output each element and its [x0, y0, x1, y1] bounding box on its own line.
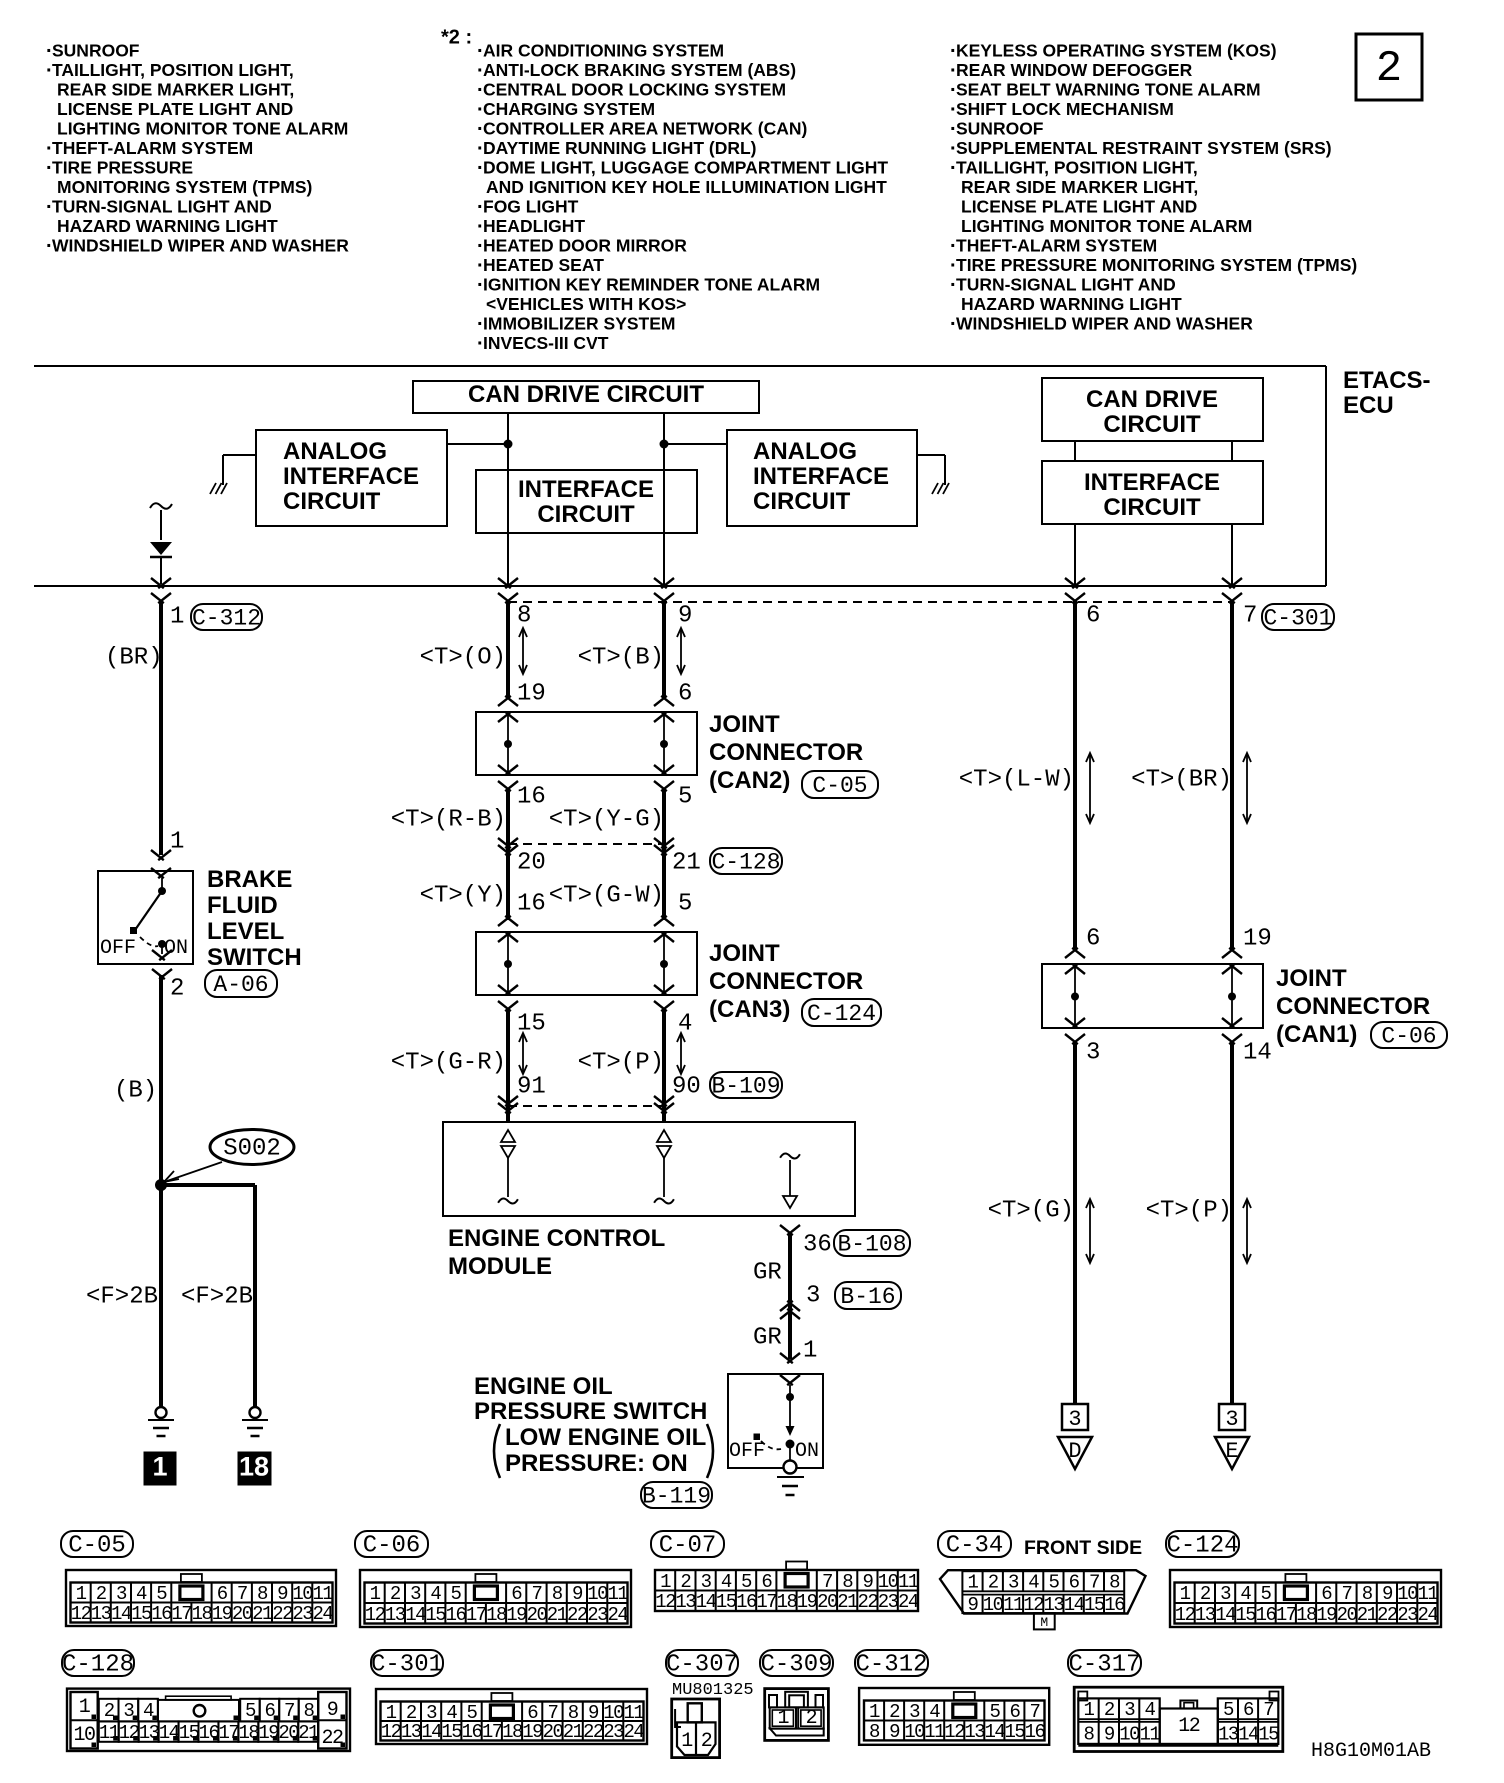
svg-text:2: 2 [701, 1730, 712, 1753]
svg-text:D: D [1068, 1439, 1081, 1464]
svg-text:4: 4 [136, 1583, 147, 1605]
svg-text:21: 21 [252, 1603, 273, 1625]
splice junction dot S002 [155, 1179, 167, 1191]
svg-text:13: 13 [1195, 1604, 1216, 1626]
svg-text:<T>(G-R): <T>(G-R) [391, 1049, 506, 1076]
svg-text:1: 1 [869, 1701, 880, 1723]
svg-text:C-317: C-317 [1068, 1652, 1140, 1679]
svg-text:10: 10 [292, 1583, 313, 1605]
svg-text:1: 1 [170, 603, 184, 630]
wire CAN-L bus to joint CAN2 [506, 601, 510, 697]
svg-text:7: 7 [1342, 1583, 1352, 1605]
svg-text:6: 6 [1086, 925, 1100, 952]
svg-text:IGNITION KEY REMINDER TONE ALA: IGNITION KEY REMINDER TONE ALARM [483, 275, 820, 295]
engine control module box [443, 1122, 855, 1216]
junction dot left [504, 440, 513, 449]
svg-text:18: 18 [502, 1721, 523, 1743]
svg-text:14: 14 [1238, 1724, 1259, 1746]
svg-text:14: 14 [405, 1604, 426, 1626]
svg-text:INTERFACE: INTERFACE [753, 463, 889, 490]
svg-text:15: 15 [441, 1721, 462, 1743]
svg-text:BRAKE: BRAKE [207, 866, 292, 893]
wire label GR lower [753, 1324, 782, 1351]
svg-text:CIRCUIT: CIRCUIT [1103, 494, 1201, 521]
svg-text:24: 24 [623, 1721, 644, 1743]
svg-text:2: 2 [806, 1707, 817, 1730]
svg-text:SUNROOF: SUNROOF [956, 119, 1044, 139]
svg-text:TURN-SIGNAL LIGHT AND: TURN-SIGNAL LIGHT AND [52, 197, 272, 217]
pin label 8 [517, 602, 531, 629]
svg-text:22: 22 [272, 1603, 293, 1625]
svg-text:9: 9 [572, 1583, 583, 1605]
svg-text:C-124: C-124 [1166, 1533, 1238, 1560]
wire link CAN drive to interface (right block) pin6 [1074, 441, 1076, 461]
wire CAN1 joint to D [1073, 1042, 1077, 1404]
svg-text:JOINT: JOINT [709, 940, 780, 967]
svg-text:12: 12 [1175, 1604, 1196, 1626]
connector C-07 label [651, 1531, 724, 1560]
svg-text:12: 12 [944, 1721, 965, 1743]
svg-text:14: 14 [159, 1722, 180, 1744]
pin label 14 joint CAN1 [1243, 1039, 1272, 1066]
junction dot right [660, 440, 669, 449]
svg-text:11: 11 [1140, 1724, 1161, 1746]
svg-text:8: 8 [1362, 1583, 1373, 1605]
wire ground branch 18 [253, 1185, 257, 1407]
svg-text:22: 22 [583, 1721, 604, 1743]
svg-text:22: 22 [857, 1591, 878, 1613]
svg-text:6: 6 [1321, 1583, 1332, 1605]
svg-text:14: 14 [111, 1603, 132, 1625]
connector C-307 pinout [672, 1699, 720, 1758]
svg-text:E: E [1225, 1439, 1238, 1464]
svg-text:21: 21 [298, 1722, 319, 1744]
svg-text:7: 7 [237, 1583, 247, 1605]
svg-text:1: 1 [660, 1571, 671, 1593]
svg-text:7: 7 [1243, 602, 1257, 629]
svg-text:ANALOG: ANALOG [753, 438, 857, 465]
svg-text:13: 13 [91, 1603, 112, 1625]
svg-text:<T>(G-W): <T>(G-W) [549, 882, 664, 909]
connector crossing B-109 left [498, 1096, 518, 1113]
twisted arrow right3 [1086, 1199, 1094, 1263]
svg-text:16: 16 [1025, 1721, 1046, 1743]
svg-text:16: 16 [446, 1604, 467, 1626]
connector C-307 part number [672, 1681, 754, 1700]
svg-text:<F>2B: <F>2B [181, 1283, 253, 1310]
svg-text:23: 23 [587, 1604, 608, 1626]
svg-text:18: 18 [192, 1603, 213, 1625]
wire label T O [420, 644, 506, 671]
ground stub left analog interface [210, 455, 256, 494]
svg-text:36: 36 [803, 1231, 832, 1258]
svg-text:4: 4 [143, 1700, 154, 1722]
bus line (connector row) [34, 585, 1326, 587]
svg-text:7: 7 [822, 1571, 832, 1593]
wire CAN1 pin7 bus to joint [1230, 601, 1234, 950]
svg-text:IMMOBILIZER SYSTEM: IMMOBILIZER SYSTEM [483, 314, 676, 334]
joint connector CAN3 label [709, 940, 881, 1027]
connector C-06 pinout [360, 1570, 631, 1627]
svg-text:12: 12 [655, 1591, 676, 1613]
svg-text:10: 10 [904, 1721, 925, 1743]
svg-text:CONNECTOR: CONNECTOR [1276, 993, 1430, 1020]
analog interface circuit box (right) [727, 430, 917, 526]
svg-text:S002: S002 [223, 1135, 281, 1162]
svg-text:21: 21 [547, 1604, 568, 1626]
svg-text:5: 5 [678, 783, 692, 810]
svg-text:15: 15 [1084, 1594, 1105, 1616]
joint connector (CAN1) C-06 box [1042, 948, 1263, 1044]
dashed connector line C-312/C-301 [508, 601, 1232, 603]
svg-text:20: 20 [232, 1603, 253, 1625]
pin label 20 [517, 849, 546, 876]
joint connector (CAN2) C-05 box [476, 696, 697, 791]
pin label 1 and connector C-312 [170, 603, 262, 631]
svg-text:(CAN2): (CAN2) [709, 767, 790, 794]
svg-text:11: 11 [99, 1722, 120, 1744]
wire label T G-W [549, 882, 664, 909]
svg-text:CIRCUIT: CIRCUIT [753, 488, 851, 515]
svg-text:WINDSHIELD WIPER AND WASHER: WINDSHIELD WIPER AND WASHER [52, 236, 349, 256]
ground symbol 18 [242, 1407, 268, 1436]
CAN drive circuit box (ETACS right) [1042, 378, 1263, 441]
svg-text:18: 18 [1296, 1604, 1317, 1626]
svg-text:14: 14 [421, 1721, 442, 1743]
engine control module label [448, 1225, 665, 1280]
svg-text:3: 3 [116, 1583, 127, 1605]
svg-text:5: 5 [989, 1701, 1000, 1723]
svg-text:10: 10 [983, 1594, 1004, 1616]
wire CAN1 pin6 bus to joint [1073, 601, 1077, 950]
svg-text:22: 22 [321, 1727, 343, 1750]
svg-text:LICENSE PLATE LIGHT AND: LICENSE PLATE LIGHT AND [961, 197, 1197, 217]
svg-text:FRONT SIDE: FRONT SIDE [1024, 1537, 1142, 1559]
wire label T P right [1146, 1197, 1232, 1224]
oil switch OFF label [729, 1440, 765, 1463]
pin label 19 joint CAN1 [1243, 925, 1272, 952]
svg-text:<T>(G): <T>(G) [988, 1197, 1074, 1224]
svg-text:2: 2 [1376, 44, 1402, 94]
svg-text:19: 19 [517, 680, 546, 707]
svg-text:7: 7 [284, 1700, 294, 1722]
svg-text:23: 23 [292, 1603, 313, 1625]
wire gauge label F2B right [181, 1283, 253, 1310]
twisted pair arrow left lower [519, 1033, 527, 1074]
connector crossing A-06 pin2 [152, 950, 172, 979]
svg-text:3: 3 [909, 1701, 920, 1723]
switch OFF label [100, 937, 136, 960]
pin label 91 [517, 1073, 546, 1100]
svg-text:21: 21 [563, 1721, 584, 1743]
svg-text:REAR SIDE MARKER LIGHT,: REAR SIDE MARKER LIGHT, [961, 177, 1198, 197]
svg-text:13: 13 [1218, 1724, 1239, 1746]
svg-text:7: 7 [1263, 1699, 1273, 1721]
connector crossing B-109 right [654, 1096, 674, 1113]
svg-text:3: 3 [1220, 1583, 1231, 1605]
svg-text:<T>(R-B): <T>(R-B) [391, 806, 506, 833]
wire CAN-H joint CAN3 to ECM [662, 1009, 666, 1122]
svg-text:<T>(P): <T>(P) [1146, 1197, 1232, 1224]
diode [150, 542, 172, 584]
svg-text:CAN DRIVE: CAN DRIVE [1086, 386, 1218, 413]
wire CAN-H joint CAN2 to CAN3 [662, 789, 666, 920]
svg-text:OFF: OFF [100, 937, 136, 960]
svg-text:INTERFACE: INTERFACE [1084, 469, 1220, 496]
connector C-307 label [666, 1650, 738, 1679]
svg-text:10: 10 [587, 1583, 608, 1605]
svg-text:2: 2 [96, 1583, 107, 1605]
svg-text:C-312: C-312 [192, 605, 261, 631]
wire analog-right to junction [664, 443, 727, 445]
svg-text:6: 6 [1069, 1572, 1080, 1594]
svg-text:THEFT-ALARM SYSTEM: THEFT-ALARM SYSTEM [52, 138, 253, 158]
svg-text:3: 3 [1225, 1407, 1238, 1432]
svg-text:<T>(BR): <T>(BR) [1131, 766, 1232, 793]
svg-text:22: 22 [567, 1604, 588, 1626]
right system list [950, 40, 1357, 335]
wire label T BR [1131, 766, 1232, 793]
svg-text:18: 18 [486, 1604, 507, 1626]
connector crossing C-301 pin7 [1222, 578, 1242, 603]
wire label T G-R [391, 1049, 506, 1076]
svg-text:20: 20 [527, 1604, 548, 1626]
dashed connector line B-109 [508, 1105, 664, 1107]
svg-text:JOINT: JOINT [709, 711, 780, 738]
svg-text:13: 13 [964, 1721, 985, 1743]
svg-text:20: 20 [543, 1721, 564, 1743]
wire interface to C-301 pin7 [1231, 524, 1233, 586]
wire GR oil pressure upper [788, 1233, 792, 1359]
svg-text:17: 17 [171, 1603, 191, 1625]
svg-text:6: 6 [1086, 602, 1100, 629]
connector C-312 label [855, 1650, 928, 1679]
svg-text:ANALOG: ANALOG [283, 438, 387, 465]
svg-text:LOW ENGINE OIL: LOW ENGINE OIL [505, 1424, 706, 1451]
svg-text:8: 8 [1084, 1724, 1095, 1746]
svg-text:HEATED SEAT: HEATED SEAT [483, 255, 604, 275]
svg-text:11: 11 [898, 1571, 919, 1593]
svg-text:5: 5 [678, 890, 692, 917]
svg-text:ON: ON [795, 1440, 819, 1463]
svg-text:C-07: C-07 [659, 1533, 717, 1560]
svg-text:<T>(O): <T>(O) [420, 644, 506, 671]
connector C-124 label [1166, 1531, 1239, 1560]
svg-text:5: 5 [451, 1583, 462, 1605]
svg-text:8: 8 [552, 1583, 563, 1605]
destination arrow E [1215, 1404, 1249, 1469]
svg-text:FLUID: FLUID [207, 892, 278, 919]
joint connector (CAN3) C-124 box [476, 916, 697, 1011]
splice arrow [164, 1162, 222, 1182]
engine oil pressure switch label [474, 1373, 713, 1478]
svg-text:SHIFT LOCK MECHANISM: SHIFT LOCK MECHANISM [956, 99, 1174, 119]
svg-text:6: 6 [511, 1583, 522, 1605]
svg-text:21: 21 [672, 849, 701, 876]
svg-text:CONTROLLER AREA NETWORK (CAN): CONTROLLER AREA NETWORK (CAN) [483, 119, 807, 139]
svg-text:19: 19 [1316, 1604, 1337, 1626]
connector C-05 label [61, 1531, 133, 1560]
svg-text:M: M [1040, 1615, 1048, 1630]
pin label 4 [678, 1010, 692, 1037]
svg-text:5: 5 [1261, 1583, 1272, 1605]
svg-text:12: 12 [381, 1721, 402, 1743]
svg-text:5: 5 [156, 1583, 167, 1605]
svg-text:18: 18 [777, 1591, 798, 1613]
svg-text:C-05: C-05 [68, 1533, 126, 1560]
svg-text:LIGHTING MONITOR TONE ALARM: LIGHTING MONITOR TONE ALARM [961, 216, 1252, 236]
oil pressure switch contacts [754, 1385, 795, 1461]
svg-text:C-309: C-309 [760, 1652, 832, 1679]
svg-text:20: 20 [817, 1591, 838, 1613]
svg-text:13: 13 [675, 1591, 696, 1613]
CAN drive circuit box (left) [413, 381, 759, 413]
wire label T G [988, 1197, 1074, 1224]
svg-text:<T>(L-W): <T>(L-W) [959, 766, 1074, 793]
svg-text:CONNECTOR: CONNECTOR [709, 739, 863, 766]
svg-text:INTERFACE: INTERFACE [518, 476, 654, 503]
svg-text:B-108: B-108 [837, 1231, 906, 1257]
svg-text:15: 15 [425, 1604, 446, 1626]
pin label 16 upper [517, 783, 546, 810]
twisted arrow right2 [1243, 753, 1251, 823]
svg-text:23: 23 [1397, 1604, 1418, 1626]
svg-text:14: 14 [1243, 1039, 1272, 1066]
drawing number [1311, 1740, 1431, 1763]
svg-text:<VEHICLES WITH KOS>: <VEHICLES WITH KOS> [486, 294, 686, 314]
connector C-34 label [938, 1531, 1011, 1560]
middle system list [477, 40, 888, 355]
connector crossing B-108 [780, 1225, 800, 1235]
svg-text:2: 2 [1104, 1699, 1115, 1721]
wire label T R-B [391, 806, 506, 833]
svg-text:C-06: C-06 [1381, 1023, 1436, 1049]
pin label 36 and connector B-108 [803, 1230, 910, 1258]
ECM terminal 90 [654, 1130, 674, 1203]
svg-text:1: 1 [681, 1730, 693, 1753]
splice S002 balloon [210, 1130, 294, 1165]
svg-text:11: 11 [924, 1721, 945, 1743]
svg-text:CAN DRIVE CIRCUIT: CAN DRIVE CIRCUIT [468, 381, 704, 408]
pin label 16 lower [517, 890, 546, 917]
connector crossing C-301 pin6 [1065, 578, 1085, 603]
svg-text:21: 21 [837, 1591, 858, 1613]
brake fluid level switch contacts [130, 878, 166, 954]
svg-text:THEFT-ALARM SYSTEM: THEFT-ALARM SYSTEM [956, 236, 1157, 256]
connector C-309 label [760, 1650, 833, 1679]
wire gauge label F2B left [86, 1283, 158, 1310]
svg-text:15: 15 [716, 1591, 737, 1613]
svg-text:<T>(P): <T>(P) [578, 1049, 664, 1076]
svg-text:2: 2 [170, 975, 184, 1002]
svg-text:REAR WINDOW DEFOGGER: REAR WINDOW DEFOGGER [956, 60, 1193, 80]
twisted arrow right4 [1243, 1199, 1251, 1263]
svg-text:CIRCUIT: CIRCUIT [283, 488, 381, 515]
pin label 15 [517, 1010, 546, 1037]
ground stub right analog interface [917, 455, 949, 494]
svg-text:16: 16 [462, 1721, 483, 1743]
wire CAN-L joint CAN2 to CAN3 [506, 789, 510, 920]
svg-text:17: 17 [482, 1721, 502, 1743]
svg-text:DOME LIGHT, LUGGAGE COMPARTMEN: DOME LIGHT, LUGGAGE COMPARTMENT LIGHT [483, 158, 888, 178]
dashed connector line C-128 [508, 843, 664, 845]
svg-text:1: 1 [778, 1707, 790, 1730]
oil switch ON label [795, 1440, 819, 1463]
svg-text:15: 15 [1258, 1724, 1279, 1746]
svg-text:9: 9 [277, 1583, 288, 1605]
svg-text:HAZARD WARNING LIGHT: HAZARD WARNING LIGHT [57, 216, 278, 236]
svg-text:6: 6 [761, 1571, 772, 1593]
svg-text:C-128: C-128 [62, 1652, 134, 1679]
pin label 2 and connector A-06 [170, 970, 277, 1002]
svg-text:9: 9 [968, 1594, 979, 1616]
svg-text:C-34: C-34 [946, 1533, 1004, 1560]
svg-text:2: 2 [1200, 1583, 1211, 1605]
ETACS-ECU enclosure top line [34, 365, 1326, 367]
svg-text:CONNECTOR: CONNECTOR [709, 968, 863, 995]
svg-text:21: 21 [1357, 1604, 1378, 1626]
svg-text:7: 7 [1030, 1701, 1040, 1723]
svg-text:24: 24 [898, 1591, 919, 1613]
connector C-309 pinout [765, 1689, 829, 1741]
svg-text:2: 2 [889, 1701, 900, 1723]
connector C-301 label [371, 1650, 443, 1679]
svg-text:3: 3 [1008, 1572, 1019, 1594]
svg-text:ETACS-: ETACS- [1343, 367, 1431, 394]
svg-text:ECU: ECU [1343, 392, 1394, 419]
wire link CAN drive to interface (right block) pin7 [1231, 441, 1233, 461]
svg-text:24: 24 [312, 1603, 333, 1625]
connector C-317 pinout [1074, 1687, 1283, 1751]
svg-text:9: 9 [327, 1699, 338, 1722]
svg-text:9: 9 [862, 1571, 873, 1593]
wire label T P middle [578, 1049, 664, 1076]
svg-text:16: 16 [1256, 1604, 1277, 1626]
svg-text:7: 7 [532, 1583, 542, 1605]
svg-text:15: 15 [1235, 1604, 1256, 1626]
svg-text:12: 12 [71, 1603, 92, 1625]
svg-text:ON: ON [164, 937, 188, 960]
svg-text:SUNROOF: SUNROOF [52, 41, 140, 61]
wire label T L-W [959, 766, 1074, 793]
svg-text:4: 4 [1240, 1583, 1251, 1605]
wire ground branch 1 [159, 1185, 163, 1407]
svg-text:8: 8 [257, 1583, 268, 1605]
svg-text:19: 19 [258, 1722, 279, 1744]
svg-text:LICENSE PLATE LIGHT AND: LICENSE PLATE LIGHT AND [57, 99, 293, 119]
twisted pair arrow right [677, 628, 685, 674]
svg-text:20: 20 [1337, 1604, 1358, 1626]
pin label 1 brake switch [170, 828, 184, 855]
wire label T Y-G [549, 806, 664, 833]
wire label T B [578, 644, 664, 671]
svg-text:12: 12 [1178, 1715, 1200, 1738]
connector C-07 pinout [655, 1562, 919, 1614]
svg-text:6: 6 [217, 1583, 228, 1605]
wire (B) ground lead [159, 975, 163, 1185]
svg-text:20: 20 [278, 1722, 299, 1744]
svg-text:19: 19 [506, 1604, 527, 1626]
svg-text:HEADLIGHT: HEADLIGHT [483, 216, 585, 236]
svg-text:9: 9 [1382, 1583, 1393, 1605]
svg-text:CENTRAL DOOR LOCKING SYSTEM: CENTRAL DOOR LOCKING SYSTEM [483, 80, 786, 100]
svg-text:1: 1 [1084, 1699, 1095, 1721]
svg-text:4: 4 [430, 1583, 441, 1605]
svg-text:4: 4 [721, 1571, 732, 1593]
svg-text:JOINT: JOINT [1276, 965, 1347, 992]
engine oil pressure switch box [728, 1374, 823, 1468]
svg-text:C-124: C-124 [807, 1001, 876, 1027]
